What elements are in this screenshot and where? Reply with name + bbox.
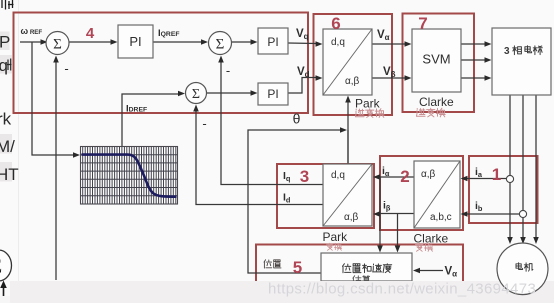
svg-text:α,β: α,β [345, 76, 360, 87]
summing junction S1 [46, 32, 69, 55]
red group box 6 (inverse Park) [314, 14, 393, 115]
svg-text:5: 5 [293, 258, 302, 277]
svg-text:PI: PI [129, 34, 141, 49]
svg-text:Clarke: Clarke [414, 232, 449, 246]
svg-text:M/: M/ [0, 137, 15, 156]
svg-text:6: 6 [331, 14, 340, 33]
red group box 3 (Park transform) [277, 164, 374, 228]
PI d-axis current controller block [258, 83, 288, 105]
estimator CJK label: wei zhi he su du [343, 264, 352, 273]
page edge line [18, 0, 20, 281]
svg-text:PI: PI [267, 87, 278, 101]
current sensor b [519, 210, 526, 217]
svg-text:Clarke: Clarke [419, 95, 454, 109]
svg-text:q: q [0, 56, 8, 75]
sidebar fragment up arrow [3, 287, 5, 303]
svg-text:https://blog.csdn.net/weixin_4: https://blog.csdn.net/weixin_43694473 [268, 281, 536, 298]
ramp curve [82, 155, 177, 197]
estimator CJK label line2: gu suan [353, 276, 361, 285]
wire: Id feedback from Park to sum S2 [196, 110, 323, 205]
wire: IDREF reference into sum S2 [122, 94, 179, 147]
svg-text:α,β: α,β [344, 212, 359, 223]
svg-text:a,b,c: a,b,c [430, 212, 452, 223]
Clarke transform block U2 [414, 161, 460, 228]
wire: V beta from inverse Park to SVM [372, 77, 405, 79]
svg-text:d,q: d,q [331, 170, 345, 181]
wire: Iq feedback from Park to sum S3 [221, 60, 323, 185]
red group box 5 (position/speed estimator), open bottom [256, 245, 463, 289]
svg-text:d,q: d,q [331, 37, 345, 48]
svg-text:2: 2 [400, 167, 409, 186]
svg-text:-: - [64, 61, 68, 76]
svg-text:SVM: SVM [422, 52, 450, 67]
svg-text:3: 3 [504, 46, 510, 57]
PI speed controller block [118, 25, 153, 58]
svg-text:-: - [226, 63, 230, 78]
sidebar highlight box P [0, 32, 10, 51]
bridge CJK label: xiang dian qiao [513, 46, 522, 55]
motor CJK label: dian ji [516, 263, 523, 270]
sidebar highlight box M/ [0, 134, 12, 154]
three-phase bridge block [492, 28, 551, 95]
svg-text:HT: HT [0, 165, 19, 184]
wire: SVM output 3 to bridge [461, 77, 485, 79]
svg-text:4: 4 [86, 25, 95, 42]
wire: SVM output 2 to bridge [461, 59, 485, 61]
CJK pink label: bian huan under Park [327, 243, 334, 250]
svg-text:Park: Park [323, 230, 349, 244]
speed ramp scope plot [81, 147, 178, 205]
wire: PI d output Vd to inverse Park [288, 78, 316, 94]
CJK pink label: bian huan under Clarke [416, 243, 424, 251]
position and speed estimator block U5 [321, 253, 412, 281]
svg-text:PI: PI [267, 35, 278, 49]
svg-text:3: 3 [300, 167, 309, 186]
motor circle bottom redraw over band [498, 275, 548, 295]
wire: phase b from bridge to motor [522, 95, 524, 238]
sidebar glyph fragment top-left [2, 0, 14, 10]
svg-text:α,β: α,β [421, 169, 436, 180]
wire: PI q output Vq to inverse Park [288, 42, 316, 45]
wire: PI speed output (IQREF) to sum S3 [153, 41, 202, 43]
Park transform block U3 [323, 164, 372, 226]
CJK pink label: ni bian huan under inverse Park [356, 109, 365, 117]
svg-text:Σ: Σ [53, 37, 62, 53]
sidebar highlight box q-axis [0, 55, 12, 74]
motor circle [497, 243, 548, 294]
sidebar highlight box HT [0, 162, 12, 182]
wire: measured current ib to Clarke [466, 213, 521, 215]
wire: SVM output 1 to bridge [461, 43, 485, 45]
wire: S3 output to PI q block [232, 41, 252, 43]
sidebar sigma formula fragment [0, 250, 12, 281]
summing junction S2 [186, 83, 207, 104]
inverse Park block U6 [323, 29, 372, 95]
svg-text:rk: rk [0, 110, 12, 129]
current sensor a [506, 175, 513, 182]
svg-text:Σ: Σ [0, 256, 2, 278]
wire: omega REF input into sum S1 [20, 41, 46, 43]
CJK label: wei zhi (position) in box 5 [264, 260, 272, 268]
bottom gray band [10, 281, 554, 303]
red group box 7 (SVM / inverse Clarke) [403, 14, 475, 113]
CJK pink label: ni bian huan under SVM [417, 109, 426, 117]
svg-text:Park: Park [355, 97, 381, 111]
PI q-axis current controller block [258, 28, 288, 54]
svg-text:Σ: Σ [192, 87, 200, 102]
wire: i beta from Clarke to Park [378, 213, 414, 215]
svg-text:Σ: Σ [216, 37, 225, 53]
wire: phase c from bridge to motor [535, 95, 537, 238]
red group box 2 (Clarke transform) [380, 156, 463, 230]
svg-text:-: - [202, 116, 206, 131]
svg-text:7: 7 [418, 14, 427, 33]
wire: theta from estimator up left channel [248, 130, 341, 273]
summing junction S3 [209, 32, 232, 55]
svg-text:1: 1 [492, 165, 501, 184]
wire: omega REF branch down to ramp plot [32, 42, 73, 155]
wire: S1 output to PI speed block [69, 41, 111, 43]
svg-text:P: P [0, 33, 10, 52]
wire: speed feedback up into sum S1 [55, 60, 57, 280]
wire: i alpha from Clarke to Park [378, 176, 414, 178]
wire: theta vertical into inverse Park and Park [347, 101, 349, 164]
wire: V alpha from inverse Park to SVM [372, 43, 405, 45]
wire: S2 output to PI d block [207, 92, 252, 94]
wire: i beta branch down to estimator [397, 214, 399, 248]
SVM block U7 [412, 29, 461, 92]
red group box 1 (current sensing) [469, 156, 538, 223]
wire: measured current ia to Clarke [466, 178, 508, 180]
wire: i alpha branch down to estimator [379, 177, 381, 247]
wire: phase a from bridge to motor [509, 95, 511, 238]
svg-text:θ: θ [293, 111, 301, 127]
wire: V alpha input to estimator [419, 270, 443, 272]
red group box 4 (speed/current PI loops) [14, 13, 309, 114]
